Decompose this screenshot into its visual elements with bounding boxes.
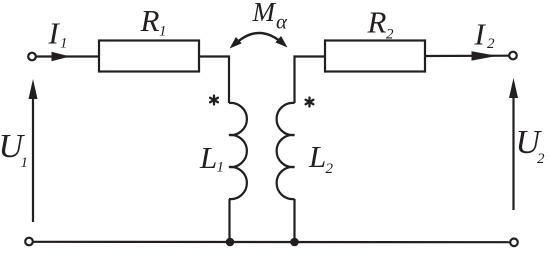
svg-text:1: 1: [217, 159, 225, 175]
wire: top-left terminal to R1: [36, 55, 99, 57]
terminal bottom-right: [510, 239, 518, 247]
svg-text:1: 1: [21, 155, 29, 171]
wire: L1 bottom to bottom rail: [228, 199, 230, 242]
junction node at L2 bottom: [290, 238, 299, 247]
label I2: [474, 16, 496, 52]
wire: L2 bottom to bottom rail: [293, 199, 295, 242]
junction node at L1 bottom: [226, 238, 235, 247]
svg-text:α: α: [276, 10, 288, 34]
resistor R1: [99, 41, 199, 72]
bottom rail wire: [33, 241, 510, 244]
inductor L2: [277, 103, 295, 199]
inductor L1: [229, 103, 247, 199]
wire: R1 to left coil top corner: [199, 57, 229, 104]
polarity dot (asterisk) of L1: [210, 96, 218, 105]
svg-text:I: I: [474, 16, 487, 51]
svg-text:R: R: [140, 3, 160, 38]
mutual coupling arrow M: [234, 33, 285, 46]
label R2: [367, 4, 395, 42]
terminal top-right: [509, 52, 517, 60]
svg-text:L: L: [308, 139, 326, 174]
terminal bottom-left: [25, 238, 33, 246]
svg-text:1: 1: [60, 36, 68, 52]
label U2: [516, 124, 546, 167]
voltage arrow U2: [512, 85, 514, 210]
label L1: [199, 140, 224, 176]
label R1: [140, 3, 167, 40]
voltage arrow U1: [32, 86, 34, 222]
svg-text:2: 2: [487, 36, 495, 52]
label M alpha: [252, 0, 289, 34]
label I1: [48, 16, 68, 52]
current arrow I1: [52, 52, 71, 61]
wire: R2 to top-right terminal: [425, 55, 509, 57]
svg-text:R: R: [367, 4, 387, 39]
label U1: [0, 128, 28, 171]
svg-text:2: 2: [386, 27, 394, 43]
svg-text:I: I: [48, 16, 61, 51]
svg-text:M: M: [252, 0, 277, 27]
svg-text:L: L: [199, 140, 217, 175]
resistor R2: [325, 41, 425, 72]
svg-text:1: 1: [159, 24, 167, 40]
polarity dot (asterisk) of L2: [306, 98, 314, 107]
wire: right coil top corner to R2: [295, 57, 326, 104]
svg-text:2: 2: [537, 151, 545, 167]
terminal top-left: [28, 53, 36, 61]
label L2: [308, 139, 334, 177]
current arrow I2: [472, 51, 498, 60]
svg-text:2: 2: [326, 161, 334, 177]
